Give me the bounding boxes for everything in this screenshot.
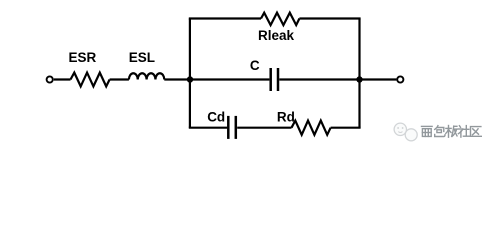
wire: middle rail left segment <box>190 78 269 80</box>
wire: top rail right segment <box>299 17 360 19</box>
wire: ESR to ESL <box>110 78 129 80</box>
inductor ESL <box>129 73 164 79</box>
glyph 区 <box>471 127 482 137</box>
resistor Rd <box>292 121 331 135</box>
wire: right branch rail (vertical) <box>358 19 360 128</box>
svg-text:Rleak: Rleak <box>258 28 295 43</box>
wire: bottom rail middle segment <box>237 127 291 129</box>
glyph 板 <box>446 126 457 138</box>
svg-text:ESL: ESL <box>129 50 155 65</box>
watermark logo face marks <box>397 127 403 132</box>
wire: middle rail right segment <box>279 78 359 80</box>
glyph 社 <box>458 126 469 138</box>
capacitor C <box>271 68 278 91</box>
junction node right <box>356 76 362 82</box>
glyph 包 <box>435 126 445 137</box>
wire: right node to terminal <box>360 78 397 80</box>
wire: top rail left segment <box>189 17 261 19</box>
wire: bottom rail right segment <box>331 127 361 129</box>
terminal left (open circle) <box>47 76 53 82</box>
resistor Rleak <box>261 13 299 25</box>
svg-text:ESR: ESR <box>69 50 97 65</box>
resistor ESR <box>71 73 110 87</box>
watermark logo (two overlapping circles, light gray) <box>394 123 417 141</box>
glyph 面 <box>422 126 433 136</box>
svg-text:Cd: Cd <box>207 110 225 125</box>
watermark text 面包板社区 (drawn as vector strokes) <box>422 126 482 138</box>
wire: left branch rail (vertical) with top corners <box>189 19 191 128</box>
wire: left terminal to ESR <box>54 78 71 80</box>
junction node left <box>187 76 193 82</box>
svg-text:Rd: Rd <box>277 110 295 125</box>
wire: ESL to left node <box>164 78 190 80</box>
terminal right (open circle) <box>397 76 403 82</box>
svg-text:C: C <box>250 58 260 73</box>
capacitor Cd <box>228 116 236 139</box>
wire: bottom rail left segment <box>189 127 228 129</box>
